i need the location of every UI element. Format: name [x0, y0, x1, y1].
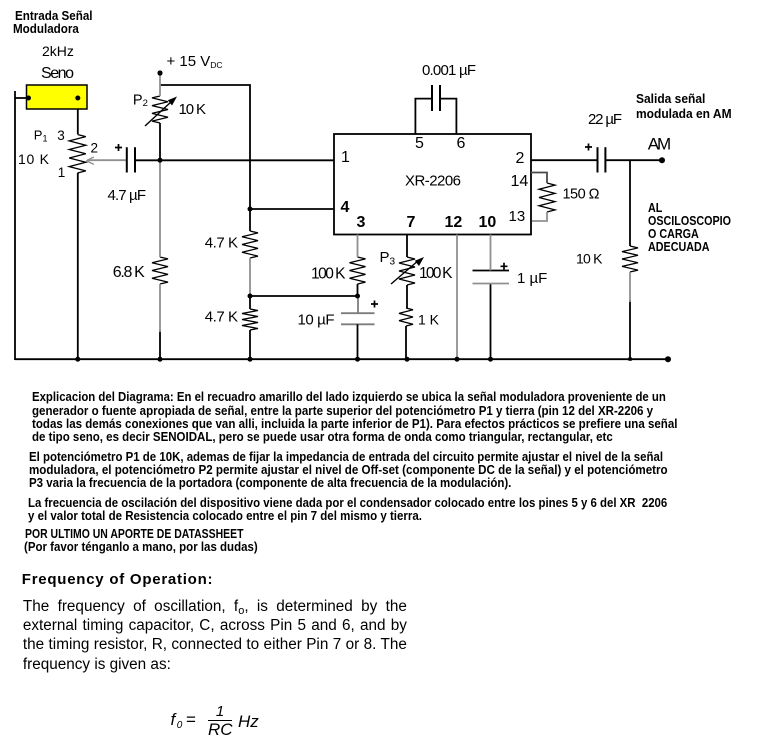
svg-text:P2: P2 [133, 93, 148, 110]
svg-text:5: 5 [415, 135, 424, 152]
svg-text:4.7 µF: 4.7 µF [108, 187, 147, 204]
svg-text:Seno: Seno [41, 65, 74, 82]
svg-text:10 K: 10 K [179, 101, 207, 118]
svg-text:100 K: 100 K [419, 265, 453, 282]
svg-text:+ 15 VDC: + 15 VDC [167, 53, 223, 70]
svg-text:3: 3 [57, 128, 65, 143]
svg-text:10 µF: 10 µF [298, 311, 335, 328]
svg-text:12: 12 [445, 214, 463, 231]
svg-text:1: 1 [58, 165, 66, 180]
svg-text:P1: P1 [34, 127, 48, 143]
svg-text:150 Ω: 150 Ω [563, 187, 600, 203]
svg-text:14: 14 [511, 173, 529, 190]
svg-text:1 µF: 1 µF [517, 270, 547, 287]
svg-text:100 K: 100 K [311, 265, 346, 282]
svg-text:P3: P3 [380, 249, 396, 268]
svg-text:6.8 K: 6.8 K [113, 264, 145, 281]
svg-text:7: 7 [407, 214, 416, 231]
svg-text:2kHz: 2kHz [42, 43, 74, 59]
svg-text:10: 10 [479, 214, 497, 231]
svg-text:22 µF: 22 µF [588, 111, 622, 128]
svg-text:13: 13 [509, 208, 526, 225]
svg-text:4.7 K: 4.7 K [205, 309, 238, 326]
svg-text:2: 2 [516, 150, 525, 167]
svg-text:6: 6 [457, 135, 466, 152]
svg-text:1: 1 [341, 149, 350, 166]
svg-text:4.7 K: 4.7 K [205, 235, 238, 252]
svg-text:4: 4 [341, 199, 350, 216]
svg-text:3: 3 [357, 214, 366, 231]
svg-text:2: 2 [91, 141, 99, 156]
svg-text:0.001 µF: 0.001 µF [422, 62, 476, 79]
svg-text:XR-2206: XR-2206 [405, 172, 461, 189]
svg-text:10 K: 10 K [576, 250, 603, 266]
svg-text:AM: AM [648, 134, 672, 153]
svg-text:1 K: 1 K [418, 312, 440, 328]
svg-text:10 K: 10 K [18, 151, 50, 167]
